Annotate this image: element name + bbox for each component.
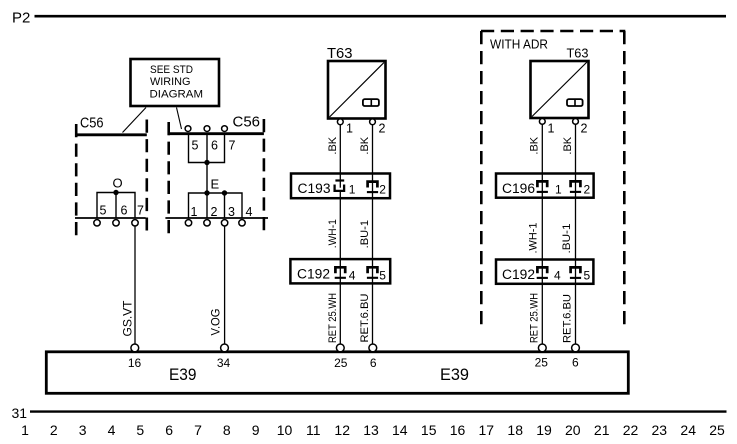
svg-text:6: 6 — [572, 356, 579, 370]
svg-text:2: 2 — [379, 122, 386, 136]
svg-text:C192: C192 — [297, 267, 330, 282]
svg-text:5: 5 — [379, 268, 386, 282]
pin 1 plug symbol — [335, 181, 345, 191]
splice O — [97, 176, 144, 219]
connector C56 right bottom bar — [165, 217, 268, 219]
wire RET 6.BU right — [562, 294, 574, 343]
svg-text:3: 3 — [228, 205, 235, 219]
svg-text:12: 12 — [334, 422, 350, 438]
svg-text:5: 5 — [192, 139, 199, 153]
svg-text:7: 7 — [229, 139, 236, 153]
svg-text:4: 4 — [349, 268, 356, 282]
pin socket 25 left — [336, 344, 344, 352]
svg-text:C56: C56 — [233, 114, 261, 131]
wire .BU-1 — [359, 220, 371, 249]
svg-text:25: 25 — [709, 422, 725, 438]
svg-text:20: 20 — [565, 422, 581, 438]
svg-text:.BU-1: .BU-1 — [561, 224, 573, 254]
svg-text:4: 4 — [554, 268, 561, 282]
connector C56 left bottom bar — [75, 217, 146, 219]
svg-text:.BK: .BK — [562, 136, 574, 154]
connector C196 — [496, 174, 594, 198]
svg-text:6: 6 — [211, 139, 218, 153]
svg-text:1: 1 — [548, 122, 555, 136]
wire .WH-1 right — [528, 223, 540, 254]
node P2 — [12, 10, 30, 27]
svg-text:WIRING: WIRING — [150, 76, 191, 88]
pin 1 socket symbol — [537, 181, 548, 192]
svg-text:1: 1 — [191, 205, 198, 219]
svg-text:RET.6.BU: RET.6.BU — [562, 294, 574, 343]
wire to splice E — [206, 163, 208, 194]
svg-text:O: O — [113, 176, 123, 191]
pin sockets right C56 — [185, 220, 191, 226]
svg-text:2: 2 — [211, 205, 218, 219]
wire leader to left C56 — [123, 108, 147, 133]
pin socket 16 — [131, 344, 139, 352]
ECU E39 — [46, 344, 628, 393]
svg-text:C196: C196 — [502, 181, 535, 196]
connector C56 (left) — [75, 115, 147, 237]
wire .BU-1 right — [561, 224, 573, 254]
jumper cells 5 6 7 — [189, 135, 236, 166]
svg-text:RET.6.BU: RET.6.BU — [359, 293, 371, 342]
pin 4 socket symbol — [537, 267, 548, 278]
pin socket 34 — [221, 344, 229, 352]
svg-text:25: 25 — [334, 356, 348, 370]
svg-text:.BK: .BK — [359, 136, 371, 154]
pin 5 socket symbol — [570, 267, 581, 278]
svg-text:5: 5 — [584, 268, 591, 282]
svg-text:18: 18 — [507, 422, 523, 438]
svg-text:6: 6 — [121, 204, 128, 218]
svg-text:21: 21 — [594, 422, 610, 438]
svg-text:16: 16 — [450, 422, 466, 438]
svg-text:1: 1 — [21, 422, 29, 438]
wire GS.VT — [134, 226, 136, 344]
svg-text:8: 8 — [223, 422, 231, 438]
pin sockets left C56 — [94, 220, 100, 226]
svg-text:22: 22 — [623, 422, 639, 438]
svg-text:RET 25.WH: RET 25.WH — [327, 293, 339, 343]
wire RET 25.WH right — [528, 293, 540, 343]
wire RET 25.WH left — [327, 293, 339, 343]
svg-text:T63: T63 — [327, 46, 353, 62]
sensor T63 (left) — [327, 46, 386, 136]
wire .BK pin2 right — [575, 124, 577, 344]
svg-text:5: 5 — [100, 204, 107, 218]
svg-text:1: 1 — [349, 183, 356, 197]
svg-text:6: 6 — [165, 422, 173, 438]
splice E — [189, 177, 253, 220]
svg-text:9: 9 — [252, 422, 260, 438]
svg-text:SEE STD: SEE STD — [150, 64, 193, 76]
pin bushings on bar — [185, 126, 191, 132]
pin 4 socket symbol — [335, 267, 346, 278]
wire 31 bus — [30, 410, 727, 412]
wire .WH-1 — [327, 219, 339, 248]
svg-text:2: 2 — [584, 183, 591, 197]
svg-text:P2: P2 — [12, 10, 30, 27]
pin socket 6 left — [369, 344, 377, 352]
svg-text:3: 3 — [79, 422, 87, 438]
svg-text:C56: C56 — [80, 115, 104, 132]
svg-text:7: 7 — [194, 422, 202, 438]
svg-text:24: 24 — [680, 422, 696, 438]
connector C193 — [291, 174, 390, 199]
option box WITH ADR — [481, 31, 625, 324]
svg-text:WITH ADR: WITH ADR — [490, 36, 548, 51]
svg-text:13: 13 — [363, 422, 379, 438]
svg-text:15: 15 — [421, 422, 437, 438]
wire leader to right C56 — [177, 108, 182, 130]
svg-text:E39: E39 — [440, 366, 469, 384]
note SEE STD WIRING DIAGRAM — [131, 59, 220, 106]
svg-text:V.OG: V.OG — [208, 309, 222, 336]
svg-text:7: 7 — [137, 204, 144, 218]
svg-text:.BK: .BK — [327, 136, 339, 154]
svg-text:34: 34 — [217, 356, 231, 370]
svg-text:16: 16 — [128, 356, 142, 370]
svg-text:.WH-1: .WH-1 — [528, 223, 540, 254]
svg-text:1: 1 — [346, 122, 353, 136]
coordinate scale 1-25 — [21, 422, 725, 438]
wire .BK pin1 right — [541, 124, 543, 344]
connector C192 (right) — [496, 260, 593, 284]
svg-text:5: 5 — [136, 422, 144, 438]
wire RET 6.BU left — [359, 293, 371, 342]
svg-text:23: 23 — [652, 422, 668, 438]
svg-text:10: 10 — [277, 422, 293, 438]
node 31 — [12, 405, 28, 421]
wire .BK pin2 left — [372, 125, 374, 345]
sensor T63 (right) — [531, 46, 589, 136]
svg-text:RET 25.WH: RET 25.WH — [528, 293, 540, 343]
svg-text:2: 2 — [50, 422, 58, 438]
svg-text:E39: E39 — [169, 366, 197, 384]
svg-text:E: E — [211, 177, 220, 192]
svg-text:31: 31 — [12, 405, 28, 421]
svg-text:GS.VT: GS.VT — [120, 300, 134, 337]
svg-text:19: 19 — [536, 422, 552, 438]
wire .BK pin1 left — [339, 125, 341, 188]
svg-text:2: 2 — [379, 183, 386, 197]
svg-text:25: 25 — [535, 356, 549, 370]
svg-text:4: 4 — [108, 422, 116, 438]
pin 5 socket symbol — [367, 267, 378, 278]
pin socket 6 right — [572, 344, 580, 352]
svg-text:2: 2 — [581, 122, 588, 136]
svg-text:6: 6 — [370, 356, 377, 370]
svg-text:DIAGRAM: DIAGRAM — [150, 89, 204, 101]
wire V.OG — [224, 226, 226, 344]
connector C192 (left) — [290, 259, 390, 283]
pin 2 socket symbol — [570, 181, 581, 192]
svg-text:C192: C192 — [502, 267, 535, 282]
svg-text:.WH-1: .WH-1 — [327, 219, 339, 248]
svg-text:14: 14 — [392, 422, 408, 438]
connector C56 (right) — [168, 114, 264, 237]
svg-text:.BK: .BK — [529, 136, 541, 154]
svg-text:4: 4 — [246, 205, 253, 219]
svg-text:17: 17 — [479, 422, 495, 438]
svg-text:1: 1 — [555, 183, 562, 197]
pin socket 25 right — [538, 344, 546, 352]
svg-text:T63: T63 — [567, 46, 589, 61]
svg-text:C193: C193 — [298, 181, 331, 196]
pin 2 socket symbol — [367, 182, 378, 193]
wire P2 bus — [35, 15, 727, 18]
svg-text:11: 11 — [306, 422, 321, 438]
svg-text:.BU-1: .BU-1 — [359, 220, 371, 249]
